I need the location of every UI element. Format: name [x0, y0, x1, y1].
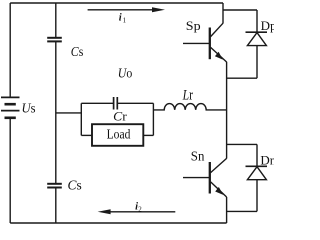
svg-text:Cs: Cs [71, 45, 84, 60]
svg-text:1: 1 [123, 16, 127, 24]
transistor Sp [183, 23, 227, 62]
wire middle rail center [55, 42, 57, 184]
wire left rail lower [9, 118, 11, 223]
wire tank right vertical [152, 103, 154, 135]
wire Dp bottom branch [227, 77, 257, 79]
svg-text:Uo: Uo [118, 67, 133, 82]
diode Dp [246, 10, 268, 78]
wire Dn top branch [227, 143, 257, 145]
transistor Sn [183, 158, 227, 197]
wire tank top right [118, 102, 154, 104]
wire Dp top branch [223, 9, 257, 11]
wire top rail [10, 2, 223, 4]
current arrow i1 [88, 7, 165, 12]
current arrow i2 [98, 209, 176, 214]
wire load stub right [143, 134, 153, 136]
svg-text:Us: Us [22, 101, 36, 116]
capacitor Cr [114, 97, 118, 110]
wire middle rail lower [55, 188, 57, 223]
wire middle rail upper [55, 3, 57, 37]
wire tank left vertical [80, 103, 82, 135]
arrowhead Sp emitter [215, 52, 223, 60]
svg-text:Load: Load [107, 128, 131, 143]
svg-text:Cr: Cr [113, 109, 127, 124]
svg-text:Sn: Sn [191, 150, 205, 165]
svg-text:Cs: Cs [68, 178, 82, 193]
svg-text:i: i [119, 12, 122, 23]
capacitor Cs top [47, 38, 62, 42]
inductor Lr [153, 104, 226, 110]
svg-text:Dn: Dn [260, 152, 274, 167]
wire load branch [56, 112, 82, 114]
wire left rail upper [9, 3, 11, 97]
wire load stub left [81, 134, 92, 136]
svg-text:2: 2 [138, 205, 142, 213]
diode Dn [246, 144, 268, 211]
wire Sn emitter rail [226, 197, 228, 223]
wire Dn bottom branch [227, 210, 257, 212]
arrowhead Sn emitter [215, 187, 223, 195]
wire bottom rail [10, 222, 226, 224]
battery Us [1, 97, 20, 117]
wire mid rail [226, 62, 228, 159]
load box [92, 124, 143, 146]
svg-text:Lr: Lr [182, 88, 193, 104]
svg-text:Sp: Sp [186, 18, 201, 33]
capacitor Cs bottom [47, 184, 62, 188]
wire tank top left [81, 102, 113, 104]
wire collector rail Sp [222, 3, 224, 23]
svg-text:Dp: Dp [261, 18, 274, 33]
